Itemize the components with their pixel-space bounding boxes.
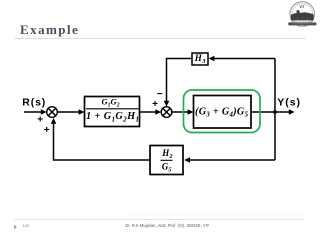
svg-text:H2: H2 <box>161 148 172 160</box>
svg-text:+: + <box>44 125 50 136</box>
svg-text:(G3 + G4)G5: (G3 + G4)G5 <box>195 107 249 119</box>
svg-text:Y(s): Y(s) <box>277 97 301 109</box>
svg-text:+: + <box>37 115 43 126</box>
svg-text:G1G2: G1G2 <box>102 97 120 109</box>
svg-text:−: − <box>157 89 163 100</box>
svg-text:H3: H3 <box>194 53 206 65</box>
svg-text:VIT: VIT <box>299 5 304 9</box>
svg-text:+: + <box>152 99 158 110</box>
svg-text:G5: G5 <box>162 162 172 174</box>
svg-text:1 + G1G2H1: 1 + G1G2H1 <box>86 111 139 124</box>
svg-text:R(s): R(s) <box>22 97 46 109</box>
